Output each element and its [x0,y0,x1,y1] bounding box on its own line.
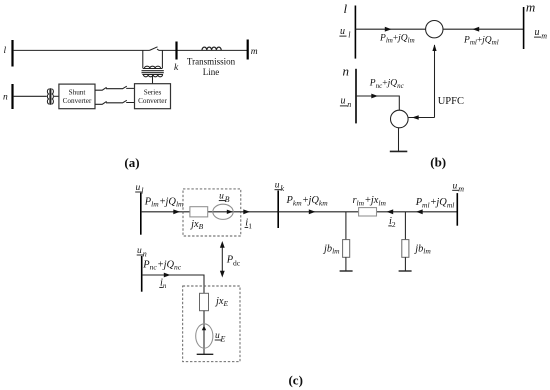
svg-text:UPFC: UPFC [438,96,464,107]
svg-text:Shunt: Shunt [69,88,86,96]
underline u_l (c) [135,191,142,193]
ground (b) [390,150,408,152]
underline u_n (b) [340,105,348,107]
svg-text:l: l [4,46,7,56]
underline u_B [219,200,226,202]
shunt transformer right winding [52,89,54,104]
svg-text:(c): (c) [288,373,302,388]
series transformer legs [143,50,163,68]
svg-text:n: n [343,64,350,79]
bus n (b) [355,69,357,124]
transmission line inductor [202,47,221,50]
underline u_E [215,339,222,341]
dc link wire top [95,86,135,90]
arrow i_1 (c) [243,209,250,214]
wire jx_E to ground through u_E [203,311,205,355]
arrow i_2 (c) [387,209,394,214]
svg-text:Converter: Converter [138,97,167,105]
arrow inside u_E [202,326,206,331]
shunt transformer left winding [47,89,49,104]
underline i_2 [388,225,392,227]
arrow P_ml (c) [416,209,423,214]
ground left shunt [340,270,353,272]
svg-text:(a): (a) [124,155,139,170]
svg-text:l: l [344,1,348,16]
svg-text:Series: Series [144,88,162,96]
underline i_1 [245,226,249,228]
svg-text:Transmission: Transmission [187,57,236,67]
shunt jb_lm left rect [343,240,350,258]
bus l (c) [140,193,142,235]
reactance jx_B [190,207,208,217]
shunt source circle (b) [391,110,409,128]
underline u_l (b) [339,35,346,37]
arrow i_n (c) [164,273,171,278]
bus m (c) [456,193,458,226]
svg-text:m: m [526,0,535,14]
series source ellipse u_B [213,204,233,219]
arrow inside u_B [227,210,233,214]
shunt transformer core [50,88,51,105]
underline u_n (c) [137,254,144,256]
left arrow into shunt source (b) [412,115,419,119]
svg-text:m: m [251,47,258,57]
bus l (a) [11,40,13,67]
series transformer primary winding [143,68,163,70]
bus l (b) [354,6,356,59]
svg-text:(b): (b) [430,154,446,169]
underline u_m (c) [452,189,459,191]
svg-text:n: n [3,93,8,103]
series transformer secondary winding [142,74,163,76]
wire circle to m (b) [443,28,524,30]
series transformer core [142,71,164,73]
underline i_n [159,286,163,288]
horizontal link to shunt source (b) [409,117,435,119]
arrow P_km (c) [309,209,316,214]
bypass switch [150,47,160,51]
wire n to shunt branch (c) [142,275,204,293]
wire switch to bus k [159,49,177,51]
line impedance rect r_lm+jx_lm [359,208,377,216]
shunt converter box [59,84,95,109]
shunt jb_lm left wire [345,212,347,240]
series converter box [135,84,171,109]
wire bus k to inductor [177,49,248,51]
wire l to switch [13,49,150,51]
bus m (a) [247,40,249,60]
series source circle (b) [426,21,443,38]
wire n to shunt source (b) [356,96,399,110]
ground wire (b) [398,128,400,152]
wire to ground right shunt [404,257,406,271]
svg-text:Converter: Converter [63,97,92,105]
wire to ground left shunt [345,257,347,271]
bus m (b) [523,7,525,49]
svg-text:Line: Line [203,67,220,77]
bus n (c) [141,256,143,292]
shunt jb_lm right wire [404,212,406,240]
series transformer center tap wire [152,74,154,83]
UPFC vertical link (b) [434,45,436,118]
series dashed box (c) [183,189,241,236]
P_dc arrowhead down [220,271,225,278]
wire n to shunt transformer [13,95,47,97]
shunt jb_lm right rect [402,240,409,258]
arrow P_lm (b) [385,27,392,32]
underline u_m (b) [534,36,541,38]
wire l to circle (b) [355,28,425,30]
bus k (a) [175,42,177,60]
main wire l to k (c) [141,211,278,213]
arrow P_lm (c) [173,209,180,214]
P_dc arrowhead up [220,241,225,248]
shunt source ellipse u_E [196,324,213,348]
underline u_k (c) [275,189,282,191]
ground shunt source (c) [197,353,214,355]
bus k (c) [277,191,279,229]
up arrow on UPFC link (b) [432,44,436,51]
wire shunt transformer to shunt converter [54,95,59,97]
P_dc double arrow [221,244,223,275]
arrow P_nc (b) [371,94,378,99]
ground right shunt [399,270,412,272]
reactance jx_E [200,293,209,310]
wire k to m (c) [278,211,457,213]
arrow P_ml (b) [473,27,480,32]
shunt dashed box (c) [183,286,240,362]
dc link wire bottom [95,100,135,104]
bus n (a) [11,84,13,109]
